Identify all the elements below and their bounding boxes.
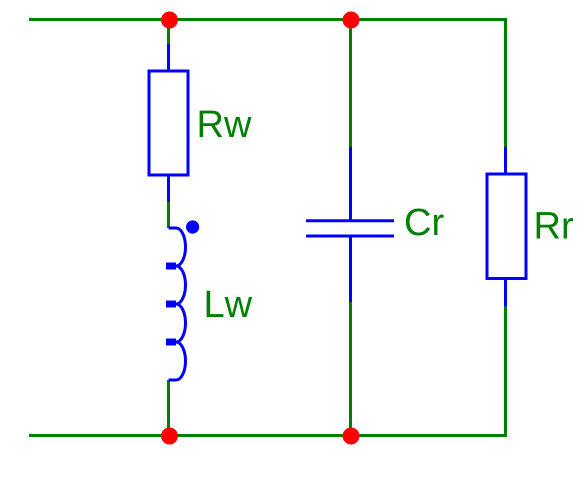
svg-text:Rr: Rr xyxy=(534,206,574,248)
wire middle branch upper xyxy=(349,20,352,148)
wire left branch lower xyxy=(167,380,170,436)
wire bottom bus xyxy=(29,434,506,437)
node dot bottom-middle xyxy=(343,428,360,445)
wire left branch upper xyxy=(167,20,170,45)
node dot top-middle xyxy=(343,12,360,29)
wire left branch middle xyxy=(167,202,170,228)
inductor Lw junction nub 2 xyxy=(166,301,176,308)
capacitor Cr xyxy=(306,147,394,302)
node dot top-left xyxy=(161,12,178,29)
wire right vertical upper xyxy=(504,18,507,147)
inductor Lw junction nub 1 xyxy=(166,263,176,270)
inductor Lw polarity dot xyxy=(186,220,199,233)
wire top bus xyxy=(29,18,506,21)
wire right vertical lower xyxy=(504,307,507,438)
inductor Lw junction nub 3 xyxy=(166,339,176,346)
svg-text:Cr: Cr xyxy=(404,202,444,244)
resistor Rr xyxy=(487,147,526,307)
wire middle branch lower xyxy=(349,302,352,436)
svg-text:Rw: Rw xyxy=(197,104,252,146)
inductor Lw xyxy=(169,228,186,380)
node dot bottom-left xyxy=(161,428,178,445)
resistor Rw xyxy=(149,44,188,202)
svg-text:Lw: Lw xyxy=(204,284,253,326)
